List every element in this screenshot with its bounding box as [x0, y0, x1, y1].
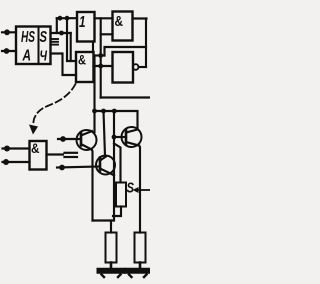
ground GND2 [127, 271, 149, 277]
svg-text:1: 1 [79, 14, 86, 31]
label S [127, 180, 135, 197]
input terminal wire bottom [2, 48, 16, 54]
wire terminal to T1 base [58, 136, 81, 142]
R3 ground stem [139, 263, 142, 269]
input terminal wire top [2, 29, 16, 35]
svg-text:&: & [115, 13, 124, 30]
wire D4 output loop [95, 47, 147, 67]
wire HS D-output to D3 input2 [51, 54, 77, 76]
T2 emitter drop [139, 146, 140, 233]
ground GND1 [100, 271, 123, 277]
gate D2 AND "&" [113, 12, 133, 41]
collector node wire y110.5 [92, 109, 137, 129]
wire D3 output to D4 [94, 64, 113, 69]
equivalence mark near HS [51, 39, 59, 45]
wire D2 input2 tie [101, 18, 113, 97]
svg-text:A: A [22, 48, 31, 65]
resistor R3 [135, 233, 146, 263]
D5 output stub [47, 153, 64, 155]
gate D4 inverter box [113, 52, 134, 83]
wire drop x66 to D3 input1 [67, 18, 76, 61]
node dot feedback [98, 53, 103, 58]
wire upper collector feed y97.5 [101, 96, 150, 98]
D5 input wire 1 [3, 146, 30, 152]
transistor T1 [77, 130, 97, 150]
svg-text:S: S [127, 180, 135, 197]
transistor T3 [96, 156, 115, 175]
wire D1 corner to D3 corner [92, 42, 94, 53]
wire right riser x146 [145, 19, 147, 68]
wire terminal to T3 base [57, 165, 100, 171]
svg-text:&: & [31, 140, 40, 156]
svg-text:&: & [78, 52, 86, 68]
wire node to R2 [110, 221, 112, 233]
T1 emitter drop [92, 150, 93, 221]
dashed equivalence arrow [29, 84, 76, 135]
gate D3 AND "&" [76, 52, 94, 83]
block U1 HS/S/A/D [16, 27, 51, 65]
gate D5 AND "&" detail [30, 140, 47, 170]
arrow S pointer [133, 187, 151, 193]
wire y18 to gate D1 [57, 16, 77, 21]
inversion bubble D4 [133, 64, 139, 70]
T3 collector riser [104, 111, 106, 156]
svg-text:Ч: Ч [40, 48, 48, 65]
R2 ground stem [110, 263, 113, 269]
rail x114 to R1 [114, 111, 121, 221]
wire D2 output [133, 17, 147, 19]
resistor R1 with S [113, 183, 126, 217]
D5 input wire 2 [3, 159, 30, 165]
emitter node wire [93, 219, 113, 221]
T3 emitter join [113, 175, 115, 176]
gate D1 inverter "1" [77, 12, 95, 42]
equivalence mark mid [65, 153, 78, 157]
wire drop x71.5 [70, 33, 72, 61]
wire D1 out to D2 [95, 17, 113, 19]
wire HS S-output to node [51, 31, 71, 36]
transistor T2 [122, 127, 142, 147]
svg-text:S: S [40, 29, 48, 46]
wire rail x94.5 T1 collector [93, 56, 95, 133]
svg-text:HS: HS [21, 29, 35, 46]
wire riser to y18 [56, 18, 58, 33]
resistor R2 [106, 233, 117, 263]
T2 base wire [112, 135, 126, 140]
